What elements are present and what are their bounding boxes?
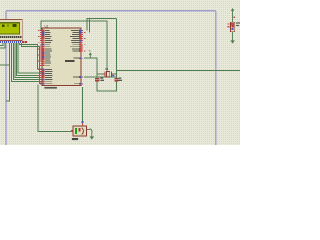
svg-text:U1: U1 [45,24,49,28]
svg-text:X1: X1 [105,67,109,71]
